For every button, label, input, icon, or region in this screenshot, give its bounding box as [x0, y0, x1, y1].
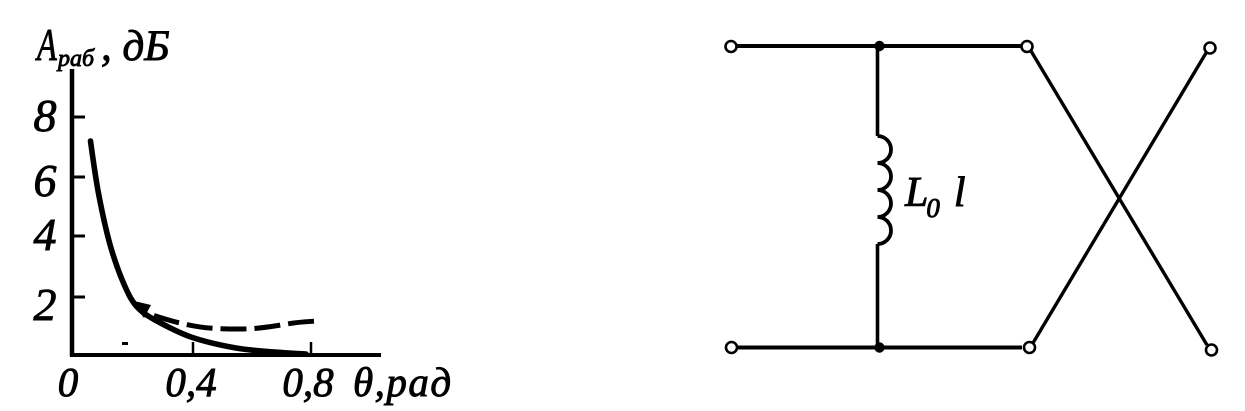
svg-text:4: 4: [34, 209, 57, 260]
svg-text:A: A: [35, 21, 58, 70]
svg-text:, дБ: , дБ: [101, 23, 170, 70]
svg-text:0,4: 0,4: [165, 359, 216, 405]
svg-text:раб: раб: [56, 46, 95, 72]
svg-text:6: 6: [34, 155, 57, 206]
svg-text:8: 8: [34, 90, 57, 141]
svg-text:2: 2: [34, 279, 57, 330]
svg-text:0: 0: [58, 359, 79, 405]
svg-text:0,8: 0,8: [282, 359, 334, 405]
svg-text:L0l: L0l: [904, 170, 966, 223]
svg-text:θ,рад: θ,рад: [353, 359, 453, 405]
